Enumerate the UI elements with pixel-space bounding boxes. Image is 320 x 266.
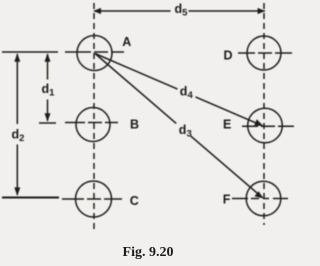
centerline horizontal row C left bbox=[2, 197, 59, 199]
centerline vertical left column bbox=[93, 3, 95, 231]
circle C bbox=[76, 181, 112, 217]
circle D bbox=[247, 36, 281, 70]
centerline horizontal row F bbox=[232, 198, 288, 200]
circle A bbox=[77, 36, 112, 71]
svg-text:A: A bbox=[122, 35, 131, 49]
dimension d1 arrowheads bbox=[45, 53, 51, 62]
svg-text:D: D bbox=[224, 49, 233, 63]
circle E bbox=[248, 108, 283, 143]
dimension d3 arrowhead bbox=[254, 191, 263, 198]
dimension d2 arrowheads bbox=[14, 53, 20, 62]
circle B bbox=[76, 108, 110, 142]
dimension d4 line A to E bbox=[95, 54, 178, 90]
dimension d5 arrowheads bbox=[93, 8, 101, 14]
dimension d4 arrowhead bbox=[254, 119, 263, 126]
svg-text:E: E bbox=[223, 117, 231, 131]
svg-text:F: F bbox=[223, 193, 231, 207]
centerline horizontal row B tick bbox=[39, 122, 56, 124]
circle F bbox=[246, 181, 281, 216]
centerline horizontal row B bbox=[65, 122, 118, 124]
dimension d2 line bbox=[16, 54, 18, 124]
centerline vertical right column bbox=[263, 3, 265, 225]
dimension d5 line bbox=[94, 10, 171, 12]
dimension d1 line bbox=[47, 54, 49, 80]
svg-text:B: B bbox=[130, 118, 139, 132]
centerline horizontal row C bbox=[62, 198, 122, 200]
svg-text:C: C bbox=[130, 194, 139, 208]
centerline horizontal row A right part bbox=[65, 51, 124, 53]
svg-text:Fig. 9.20: Fig. 9.20 bbox=[123, 245, 174, 260]
centerline horizontal row D bbox=[238, 52, 292, 54]
centerline horizontal row E bbox=[242, 125, 294, 127]
centerline horizontal row A bbox=[2, 51, 58, 53]
dimension d3 line A to F bbox=[95, 54, 176, 124]
